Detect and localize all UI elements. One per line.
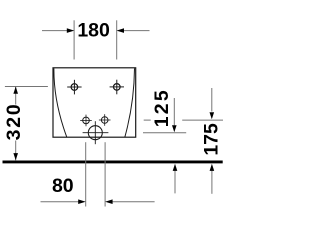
fixing hole right (crosshair) [110, 80, 124, 95]
dimension 125 (right inner): extension line at drain level [143, 98, 186, 193]
left inner contour [54, 69, 67, 138]
floor line [3, 160, 223, 163]
dimension 180 (top): extension lines [42, 20, 150, 59]
dimension 320 arrows [13, 87, 18, 94]
dimension 180 arrows [67, 28, 75, 33]
tap hole left small circle [80, 115, 92, 127]
dimension 125 arrows [172, 125, 177, 132]
fixing hole left (crosshair) [67, 80, 81, 95]
svg-text:180: 180 [77, 20, 110, 42]
svg-text:320: 320 [3, 102, 25, 140]
tap hole right small circle [99, 114, 111, 126]
svg-text:80: 80 [52, 175, 74, 197]
fixture outline (bidet back view) [53, 68, 136, 137]
right inner contour [125, 69, 135, 138]
dimension 80 (bottom): extension lines from tap holes [41, 142, 155, 206]
dimension 175 (right outer): extension line at tap hole level [144, 88, 223, 194]
svg-text:125: 125 [151, 88, 173, 127]
drain hole large circle [83, 121, 109, 144]
dimension 320 (left): extension line at hole level [5, 87, 48, 161]
svg-text:175: 175 [201, 123, 223, 156]
dimension 175 arrows [210, 112, 215, 119]
dimension 80 arrows [78, 199, 86, 204]
